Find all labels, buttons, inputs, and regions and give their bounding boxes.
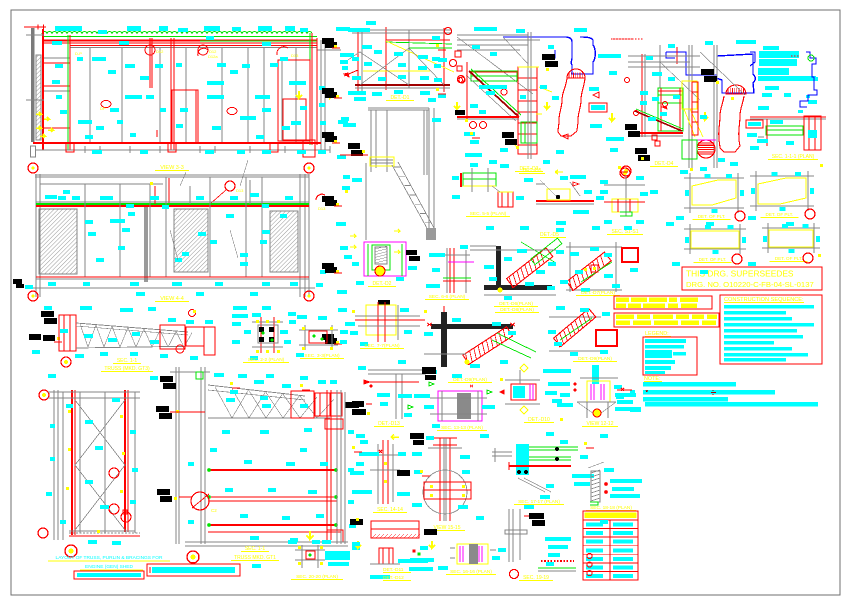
D3 black tags: [542, 54, 555, 60]
masonry hatched panel 1: [39, 209, 77, 274]
wall joint line: [221, 48, 223, 143]
red leader: [340, 154, 368, 156]
mid gray: [104, 392, 106, 533]
D3 red circles: [459, 77, 465, 83]
red column line left: [42, 29, 44, 150]
green square top: [196, 372, 203, 379]
black vertical member: [496, 246, 501, 286]
dim text base: [205, 150, 214, 154]
grid bubble bottom-left: [38, 528, 48, 538]
yellow arrow: [391, 435, 399, 440]
flange plate: [424, 482, 471, 499]
section 6-6 plan: [449, 248, 451, 293]
purlin red 3: [208, 524, 337, 526]
hatch under beam: [416, 534, 420, 538]
red leader line: [366, 381, 419, 383]
grade line: [36, 149, 330, 151]
svg-text:D12: D12: [209, 49, 217, 54]
ladder rung: [518, 89, 537, 91]
D3 cyan annotations: [474, 27, 497, 31]
blue zigzag column profile right margin: [800, 52, 817, 107]
plate P4: [762, 227, 820, 229]
green angle: [620, 212, 632, 216]
stringer 2: [398, 162, 434, 228]
D2 cyan: [344, 255, 352, 259]
yellow tick: [336, 270, 339, 273]
wall joint line: [185, 48, 187, 143]
wall joints view 4-4: [84, 184, 86, 277]
grid bubble below D4: [620, 168, 630, 178]
note text cyan: [758, 68, 789, 75]
black tags left of GT1 bottom: [157, 489, 170, 495]
column base red: [168, 143, 176, 152]
note text cyan: [770, 62, 788, 66]
green line: [443, 277, 471, 279]
red square node: [455, 51, 461, 57]
green column line: [67, 35, 69, 150]
weld ellipse 1: [101, 101, 111, 108]
D3 dark red + green top chord diagonal: [469, 71, 519, 117]
note text cyan: [798, 110, 803, 113]
bolt black square: [269, 327, 274, 332]
door opening: [172, 90, 198, 143]
section 16-16 plan detail: [457, 544, 488, 564]
ladder rung: [518, 122, 537, 124]
margin cyan note: [338, 120, 348, 124]
red frame jamb: [149, 38, 151, 88]
red square: [457, 66, 462, 71]
scatter annotations various details: [98, 30, 107, 34]
red flag: [573, 182, 579, 186]
detail D13 tee beam: [368, 369, 426, 371]
D2 yellow arrows: [350, 234, 356, 238]
sequence line: [724, 305, 814, 309]
construction sequence box: [720, 295, 822, 364]
right column: [299, 174, 301, 297]
sequence line: [724, 353, 808, 357]
red drop: [168, 178, 170, 205]
red end mark: [427, 323, 432, 326]
ladder rung: [518, 133, 537, 135]
right end column base: [303, 140, 315, 157]
yellow tie: [363, 70, 430, 72]
anchor circle: [510, 570, 519, 579]
D4 red ladder column: [692, 82, 698, 135]
masonry hatched panel 3: [270, 211, 298, 272]
note text cyan: [765, 86, 779, 90]
material table 1 yellow bars: [614, 296, 712, 309]
row line: [583, 553, 638, 555]
section S1-S1: [621, 166, 631, 176]
cell left: [586, 557, 603, 561]
section 3-3 plan detail: [304, 325, 306, 350]
det D11/D12 beam detail: [350, 519, 363, 525]
red left vertical: [466, 62, 468, 122]
note line 4 long: [645, 402, 818, 407]
cell right: [613, 574, 633, 578]
red dashdot mark: [617, 389, 632, 391]
D4 red hatched blob: [697, 140, 715, 158]
web member: [215, 387, 232, 418]
D4 red bottom tie: [631, 132, 683, 134]
section 2-2 plan detail: [260, 317, 262, 353]
window frame lines: [189, 186, 191, 204]
beam top: [368, 107, 429, 109]
ladder rung: [518, 111, 537, 113]
bolt black square: [269, 337, 274, 342]
hatch under beam: [400, 534, 404, 538]
web diagonal: [144, 329, 152, 347]
green bar: [538, 567, 576, 569]
purlin red 2b: [208, 500, 337, 502]
sequence line: [724, 341, 774, 345]
dimension text: [159, 26, 168, 31]
sequence line: [724, 358, 786, 362]
scale bar small: [74, 571, 144, 579]
svg-text:DET. OF PLT.: DET. OF PLT.: [766, 212, 794, 217]
yellow tick: [336, 341, 339, 344]
note text cyan: [759, 59, 797, 66]
wall joint line: [121, 48, 123, 143]
second red chord: [44, 42, 317, 44]
red tie line: [170, 411, 205, 413]
note text cyan: [759, 51, 799, 58]
hatch under beam: [392, 534, 396, 538]
balloon D12 mid: [145, 45, 155, 55]
left column: [35, 174, 37, 297]
yellow tick: [334, 140, 337, 143]
left support box red: [59, 315, 76, 351]
parapet cross ticks: [38, 25, 44, 30]
grid bubble A left: [28, 163, 38, 173]
black horizontal member: [484, 285, 552, 290]
top chord 2: [76, 326, 188, 335]
right stringer vertical: [428, 108, 430, 240]
margin cyan note: [336, 222, 346, 226]
row line: [583, 579, 638, 581]
GT1 yellow down arrow: [307, 531, 314, 539]
wall joint line: [263, 48, 265, 143]
mid gray vertical: [408, 30, 410, 88]
red dotted in margin: [791, 55, 800, 57]
web member: [249, 391, 266, 418]
top edge: [48, 391, 140, 393]
svg-text:DET. OF PLT.: DET. OF PLT.: [698, 214, 726, 219]
X bracing panels: [75, 400, 125, 465]
wall joint line: [295, 48, 297, 143]
red horizontal: [355, 319, 425, 321]
top red line: [750, 116, 826, 118]
diagonal: [700, 52, 745, 95]
right green column: [309, 33, 311, 145]
black tag: [322, 196, 334, 202]
grid bubble B right: [304, 163, 314, 173]
dim text base: [297, 150, 306, 154]
hatch under beam: [376, 534, 380, 538]
D3 blue concrete profile: [503, 37, 595, 74]
cyan annotations view 4-4: [45, 195, 57, 199]
black tag: [352, 401, 364, 407]
table circle: [587, 553, 592, 558]
row line: [583, 536, 638, 538]
gray centerline: [527, 32, 529, 159]
D3 red bottom tie: [457, 116, 519, 118]
table circle: [587, 562, 592, 567]
row line: [583, 545, 638, 547]
wall joint line: [89, 48, 91, 143]
svg-text:D13: D13: [318, 206, 326, 211]
sequence line: [724, 317, 792, 321]
black tag: [322, 132, 334, 138]
hatch: [375, 246, 387, 249]
horizontal member dark: [431, 324, 513, 329]
red column line: [69, 35, 71, 150]
section 7-7 elevation: [378, 300, 390, 305]
sequence line: [724, 347, 792, 351]
yellow gusset: [366, 305, 396, 335]
dimension text: [204, 26, 220, 31]
hatch under beam: [380, 534, 384, 538]
web member: [266, 392, 283, 418]
magenta line: [448, 261, 474, 263]
stair tread: [415, 203, 421, 205]
dim text base: [237, 150, 245, 154]
ladder rung: [518, 100, 537, 102]
D4 dark red diagonal: [635, 111, 682, 131]
grid bubble top-left: [39, 390, 49, 400]
dim text base: [140, 150, 148, 154]
D4 red curvy column: [719, 96, 724, 148]
sequence line: [724, 329, 797, 333]
svg-text:DP: DP: [100, 106, 106, 111]
D4 green box lower: [682, 140, 697, 159]
purlin line red: [70, 45, 317, 47]
margin tick 2: [630, 407, 641, 412]
dimension text: [55, 26, 82, 31]
black tag: [322, 334, 334, 340]
margin cyan note: [337, 290, 347, 294]
D3 green purlin box: [471, 71, 517, 81]
margin tick: [630, 390, 635, 394]
connection box 1: [291, 391, 314, 418]
yellow arrows left wall: [36, 112, 41, 116]
stair tread: [404, 185, 410, 187]
sloped top chord: [208, 385, 305, 396]
balloon D13 on view 4-4: [225, 181, 235, 191]
dim text base: [92, 150, 102, 154]
bottom red line view 4-4: [36, 276, 309, 278]
margin cyan note: [340, 246, 348, 250]
row line: [583, 528, 638, 530]
tall cyan block: [592, 365, 599, 384]
sequence line: [724, 323, 814, 327]
hatch: [375, 260, 387, 263]
top line: [35, 174, 309, 176]
wall joint line: [247, 48, 249, 143]
svg-text:D13: D13: [291, 53, 299, 58]
balloon D13: [277, 47, 288, 55]
D3 red arch with hatch: [567, 69, 585, 78]
sequence line: [724, 311, 786, 315]
green line 2: [200, 40, 317, 42]
yellow tick: [334, 45, 337, 48]
grid bubbles view 4-4: [28, 291, 38, 301]
black tag: [322, 263, 334, 269]
D4 yellow arrows: [609, 113, 615, 121]
top chord line: [352, 29, 452, 31]
D3 red curvy column: [558, 78, 567, 132]
right red column: [311, 33, 313, 145]
right connection: [325, 419, 343, 429]
top chord red: [44, 40, 317, 42]
green inner frame: [372, 245, 390, 270]
left chord line: [53, 390, 55, 540]
detail D9 plan: [549, 316, 601, 318]
table circle: [587, 571, 592, 576]
eave line green: [44, 36, 317, 38]
note line 1: [643, 382, 736, 387]
dim text base: [262, 150, 271, 154]
cell right: [613, 557, 633, 561]
web member: [232, 389, 249, 418]
section 13-13 plan: [438, 391, 482, 421]
sequence line: [724, 335, 803, 339]
D4 cyan annotations: [705, 41, 713, 45]
anchor circle: [593, 409, 601, 417]
cyan big blocks bottom right of 20-20: [325, 551, 350, 560]
top chord: [76, 323, 188, 332]
red bold box: [596, 330, 617, 346]
left column line 1: [175, 367, 177, 544]
green flag: [429, 382, 434, 386]
door frame right red: [278, 60, 310, 141]
note text cyan: [763, 46, 779, 50]
left red chord: [357, 28, 359, 95]
D3 small red circles left edge: [458, 78, 463, 83]
cell right: [613, 540, 633, 544]
svg-text:D13: D13: [236, 188, 244, 193]
plate P1: [684, 177, 744, 179]
bottom chord red: [208, 531, 341, 533]
bottom chord: [76, 346, 204, 348]
note text cyan: [808, 100, 817, 104]
D4 red vertical left: [641, 54, 643, 137]
cyan square in box: [808, 130, 817, 138]
green beam bar: [766, 126, 803, 135]
margin cyan note: [343, 175, 350, 179]
svg-text:DET. OF PLT.: DET. OF PLT.: [775, 256, 803, 261]
web diagonal: [96, 325, 104, 347]
D4 black tags: [701, 69, 714, 75]
plate P2: [750, 175, 814, 177]
wall joint line: [159, 48, 161, 143]
yellow arrows right wall: [296, 91, 302, 98]
D3 label box red-cyan: [589, 103, 607, 112]
detail D7 plan: [566, 246, 622, 248]
svg-text:C2: C2: [211, 508, 217, 513]
red end box: [804, 116, 821, 150]
D4 small red bits: [652, 135, 657, 140]
hatched pilaster: [36, 55, 41, 140]
gray louver column: [144, 207, 148, 282]
cell left: [586, 566, 603, 570]
long diagonal: [457, 37, 533, 94]
19-19 red dotted bar: [541, 560, 574, 562]
wall line: [423, 110, 425, 175]
mid connection box: [160, 325, 185, 349]
connection box 2: [315, 393, 342, 416]
girt line: [70, 47, 317, 49]
section 20-20 plan small: [295, 549, 325, 551]
dark web fill: [457, 393, 471, 419]
lower red box: [498, 192, 513, 207]
black tag: [322, 88, 334, 94]
red beam line: [536, 200, 594, 202]
margin cyan note: [338, 308, 347, 312]
ladder rung: [518, 144, 537, 146]
web member: [300, 396, 317, 418]
yellow plate: [547, 189, 570, 200]
note text cyan: [806, 95, 810, 98]
base tick marks: [84, 146, 86, 153]
bolt black square: [259, 337, 264, 342]
interior cyan annotations view 3-3: [52, 41, 62, 45]
vertical member dark: [441, 312, 447, 367]
top cap: [433, 437, 457, 439]
D3 gray rafter lines fan: [457, 34, 528, 36]
leader lines view 4-4: [180, 172, 186, 186]
left margin revision tag: [13, 279, 22, 284]
truss GT3 elevation: [41, 311, 54, 317]
red purlin line left: [71, 390, 73, 535]
GT1 cyan annotations: [214, 373, 224, 377]
svg-text:D12: D12: [156, 49, 164, 54]
grid bubble bottom: [187, 551, 199, 563]
D4 red arch with hatch: [726, 85, 746, 94]
svg-text:DET. OF PLT.: DET. OF PLT.: [699, 257, 727, 262]
hatch under beam: [404, 534, 408, 538]
web member: [283, 394, 300, 418]
bottom chord dark red: [355, 84, 450, 86]
green+red band (tie beam): [36, 203, 309, 205]
magenta frame: [364, 242, 406, 276]
dimension text: [127, 26, 141, 31]
cell right: [613, 566, 633, 570]
GT3 cyan annotations: [80, 306, 92, 310]
dimension text: [258, 26, 272, 31]
beam box red: [371, 521, 419, 538]
weld ellipse 2: [227, 108, 237, 115]
cyan notes below legend: [615, 393, 636, 397]
yellow left arrow: [555, 170, 563, 174]
D4 magenta line: [697, 139, 716, 141]
grid bubble bottom: [65, 545, 77, 557]
web diagonal: [80, 324, 88, 347]
cell left: [586, 540, 603, 544]
hatched bar: [591, 471, 600, 502]
material table 2 yellow bars: [614, 313, 719, 327]
svg-text:LAYOUT OF TRUSS, PURLIN & BRAC: LAYOUT OF TRUSS, PURLIN & BRACINGS FOR: [56, 555, 163, 561]
column divider: [609, 520, 611, 580]
lintel line: [40, 183, 163, 185]
cell left: [586, 574, 603, 578]
note line 3: [643, 397, 728, 402]
GT1 green node dots: [207, 468, 211, 472]
yellow tick: [336, 95, 339, 98]
green rafter: [386, 42, 452, 44]
purlin red 1: [208, 469, 337, 471]
mid red vertical: [385, 27, 387, 90]
